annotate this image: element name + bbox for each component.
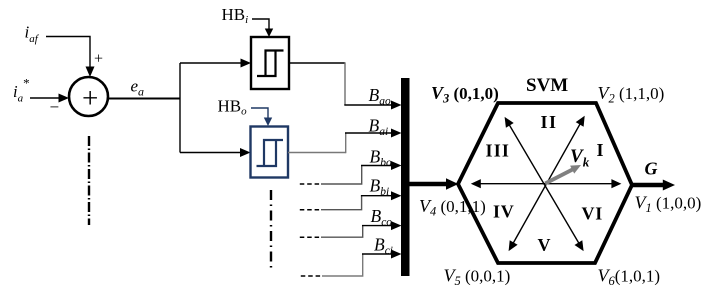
arrowhead B_ao into bus <box>391 101 402 110</box>
svg-text:+: + <box>94 51 103 68</box>
wire B_ci <box>322 254 363 276</box>
arrowhead B_bo into bus <box>391 161 402 170</box>
svg-text:II: II <box>541 112 558 132</box>
svg-text:−: − <box>50 98 60 117</box>
thick wire bus to hexagon <box>410 182 449 186</box>
hysteresis block HB_o <box>251 127 289 178</box>
dash-dot line below summing junction <box>88 136 90 225</box>
svg-text:Bao: Bao <box>369 85 391 108</box>
svg-text:III: III <box>486 141 511 161</box>
wire B_bo <box>321 166 362 185</box>
wire from HB_i label to block <box>252 19 269 30</box>
dashed stub B_ci <box>301 275 323 277</box>
arrowhead G output <box>663 180 675 191</box>
wire e_a output <box>108 98 180 100</box>
svg-text:V5 (0,0,1): V5 (0,0,1) <box>444 266 511 289</box>
svg-text:Vk: Vk <box>570 146 590 170</box>
wire branch vertical <box>179 63 181 153</box>
svg-text:I: I <box>597 140 604 160</box>
hexagon SVM <box>458 103 632 263</box>
svg-text:V1 (1,0,0): V1 (1,0,0) <box>635 193 702 216</box>
wire branch to HB_i <box>180 62 243 64</box>
svg-text:HBi: HBi <box>222 5 249 26</box>
arrowhead into HB_i block top <box>265 29 273 38</box>
wire B_co <box>321 226 363 238</box>
hysteresis symbol inside HB_i <box>257 51 284 77</box>
wire HB_i output <box>289 62 345 64</box>
arrowhead B_ai into bus <box>391 129 402 138</box>
svg-text:+: + <box>82 83 98 115</box>
diagonal axis TR-BL double arrow <box>510 119 583 249</box>
hysteresis symbol inside HB_o <box>257 140 284 166</box>
wire G output <box>632 183 665 187</box>
svg-text:IV: IV <box>493 202 515 222</box>
arrowhead B_co into bus <box>391 221 402 230</box>
dashed stub B_bi <box>300 209 322 211</box>
svg-text:ea: ea <box>131 77 145 99</box>
dashed stub B_co <box>300 236 322 238</box>
arrowhead into summing junction left <box>59 94 70 103</box>
arrowhead B_ci into bus <box>391 250 402 259</box>
svg-text:VI: VI <box>582 204 604 224</box>
svg-text:HBo: HBo <box>218 97 248 118</box>
wire branch to HB_o <box>180 152 242 154</box>
svg-text:Bai: Bai <box>369 116 389 139</box>
svg-text:V6(1,0,1): V6(1,0,1) <box>598 266 661 289</box>
wire B_bi <box>321 196 362 210</box>
svg-text:V2 (1,1,0): V2 (1,1,0) <box>598 83 665 106</box>
summing junction circle <box>69 77 108 116</box>
svg-text:V4 (0,1,1): V4 (0,1,1) <box>419 196 486 219</box>
arrowhead into HB_i <box>241 59 252 68</box>
arrowhead into hexagon left vertex <box>446 178 458 189</box>
hysteresis block HB_i <box>251 37 289 89</box>
svg-text:V: V <box>538 235 551 255</box>
svg-text:Bbo: Bbo <box>370 147 392 170</box>
svg-text:SVM: SVM <box>526 75 568 96</box>
svg-text:V3 (0,1,0): V3 (0,1,0) <box>431 83 499 106</box>
wire from HB_o label to block <box>251 108 268 119</box>
wire i_a* into summing junction <box>30 97 61 99</box>
svg-text:iaf: iaf <box>25 23 40 46</box>
dash-dot line below HB_o <box>270 190 272 270</box>
svg-text:Bci: Bci <box>374 235 393 258</box>
svg-text:Bco: Bco <box>371 206 393 229</box>
arrowhead into summing junction top <box>86 67 95 78</box>
diagonal axis horizontal double arrow <box>473 183 619 185</box>
arrowhead into HB_o <box>240 148 251 157</box>
wire from i_af to summing junction <box>46 37 90 69</box>
wire HB_o output <box>288 152 346 154</box>
arrowhead B_bi into bus <box>391 191 402 200</box>
dashed stub B_bo <box>300 183 322 185</box>
diagonal axis TL-BR double arrow <box>506 120 582 249</box>
arrowhead into HB_o block top <box>264 118 272 127</box>
svg-text:ia*: ia* <box>13 76 30 105</box>
svg-text:Bbi: Bbi <box>370 176 390 199</box>
vector V_k arrow <box>545 169 573 184</box>
bus bar <box>401 78 410 276</box>
svg-text:G: G <box>645 159 658 179</box>
